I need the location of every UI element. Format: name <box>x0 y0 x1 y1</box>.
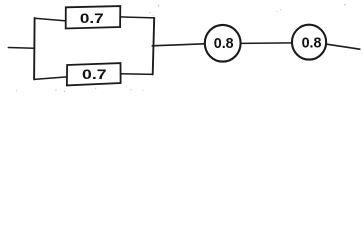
resistor block R2 value 0.7 (bottom) <box>67 63 121 85</box>
wire top branch right segment <box>120 17 154 18</box>
svg-text:0.8: 0.8 <box>302 36 322 52</box>
wire series segment to first circle <box>152 44 204 46</box>
wire between circles <box>241 42 292 45</box>
wire bottom branch right segment <box>121 73 153 76</box>
wire right junction vertical <box>153 18 155 75</box>
component circle U1 value 0.8 <box>205 25 241 62</box>
svg-text:0.7: 0.7 <box>80 11 104 27</box>
wire input lead left <box>8 47 34 50</box>
resistor block R1 value 0.7 (top) <box>66 6 121 28</box>
wire bottom branch left segment <box>34 77 67 80</box>
svg-text:0.8: 0.8 <box>214 36 234 52</box>
wire output lead right <box>327 44 360 49</box>
wire left junction vertical <box>33 18 36 80</box>
component circle U2 value 0.8 <box>292 25 326 60</box>
wire top branch left segment <box>35 18 66 21</box>
svg-text:0.7: 0.7 <box>82 67 107 83</box>
